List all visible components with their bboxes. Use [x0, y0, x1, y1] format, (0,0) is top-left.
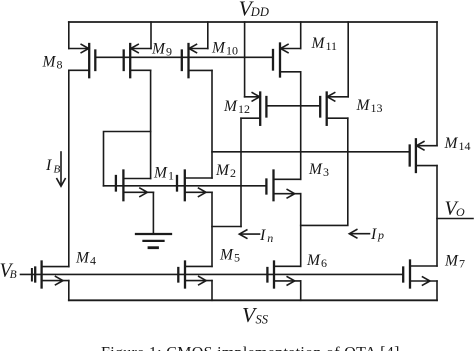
wire gate bus M1 M2 M3	[104, 185, 267, 187]
svg-text:M: M	[219, 247, 234, 264]
transistor M6	[267, 262, 300, 288]
wire VDD rail to M13 source	[347, 22, 349, 97]
transistor M8	[69, 44, 96, 77]
node VDD rail	[69, 21, 437, 23]
bias current arrow IB	[57, 152, 65, 186]
svg-text:11: 11	[326, 39, 338, 53]
svg-text:B: B	[10, 269, 17, 281]
label In	[259, 227, 273, 245]
wire VDD rail to M12 source	[244, 22, 246, 97]
wire M11 drain down to M3 drain	[300, 72, 302, 180]
ground	[136, 234, 171, 248]
label M9	[151, 41, 172, 59]
wire M8 drain down left column to M4 drain	[68, 70, 70, 266]
wire M14 drain down to M7 drain	[436, 166, 438, 266]
transistor M5	[178, 262, 212, 301]
svg-text:M: M	[211, 40, 226, 57]
svg-text:M: M	[75, 249, 90, 266]
svg-text:4: 4	[90, 253, 96, 267]
svg-text:M: M	[444, 253, 459, 270]
wire M10 drain down to M2 drain	[211, 70, 213, 178]
svg-text:1: 1	[168, 169, 174, 183]
label M14	[444, 135, 471, 153]
wire gate bus M12 M13	[266, 105, 320, 107]
svg-text:9: 9	[166, 45, 172, 59]
svg-text:M: M	[308, 161, 323, 178]
svg-text:M: M	[356, 97, 371, 114]
label M12	[223, 98, 250, 116]
label VSS	[242, 303, 269, 327]
svg-text:M: M	[42, 54, 57, 71]
wire VO output stub	[437, 218, 473, 220]
transistor M9	[124, 44, 151, 77]
wire VDD rail to M9 source	[150, 22, 152, 49]
wire M3 source down to M6 drain	[300, 194, 302, 267]
svg-text:M: M	[311, 35, 326, 52]
svg-text:M: M	[215, 162, 230, 179]
label M7	[444, 253, 465, 271]
transistor M1	[116, 171, 153, 201]
svg-text:I: I	[45, 157, 52, 174]
transistor M7	[403, 261, 437, 288]
label M2	[215, 162, 236, 180]
label VB	[0, 261, 17, 282]
svg-text:M: M	[153, 165, 168, 182]
transistor M10	[182, 44, 212, 77]
wire M1 source down to ground	[152, 192, 154, 234]
wire In node jog	[212, 226, 241, 228]
wire M13 drain down to Ip node jog	[301, 118, 348, 225]
label M10	[211, 40, 238, 58]
label Ip	[370, 226, 384, 243]
svg-text:M: M	[444, 135, 459, 152]
transistor M12	[241, 93, 266, 125]
svg-text:I: I	[370, 226, 377, 243]
transistor M14	[410, 139, 437, 172]
wire VDD rail to M8 source	[68, 22, 70, 49]
transistor M11	[273, 44, 301, 77]
label M13	[356, 97, 383, 115]
input current arrow Ip	[349, 230, 369, 238]
svg-text:M: M	[151, 41, 166, 58]
wire VB gate bus M4 M5 M6 M7	[21, 273, 404, 275]
svg-text:O: O	[456, 205, 465, 219]
wire M4 source to VSS rail	[68, 281, 70, 301]
wire M7 source to VSS rail	[436, 281, 438, 300]
label M5	[219, 247, 240, 265]
svg-text:13: 13	[371, 101, 383, 115]
wire M12 drain down to In node	[240, 118, 242, 226]
svg-text:14: 14	[459, 139, 471, 153]
transistor M4	[32, 262, 69, 288]
transistor M3	[266, 171, 300, 201]
label M1	[153, 165, 174, 183]
wire M1 gate diode loop	[104, 132, 151, 186]
node VSS rail	[69, 299, 437, 301]
wire VDD rail to M10 source	[207, 22, 209, 49]
svg-text:6: 6	[321, 256, 327, 270]
wire gate bus M8 M9 M10 M11	[95, 56, 273, 58]
svg-text:p: p	[377, 228, 384, 242]
svg-text:I: I	[259, 227, 266, 244]
transistor M2	[177, 171, 212, 201]
label VO	[445, 198, 466, 220]
label M3	[308, 161, 329, 179]
svg-text:3: 3	[323, 165, 329, 179]
svg-text:n: n	[267, 231, 273, 245]
wire M6 source to VSS rail	[300, 281, 302, 300]
label IB	[45, 157, 61, 176]
svg-text:Figure 1: CMOS implementation: Figure 1: CMOS implementation of OTA [4]…	[101, 345, 404, 351]
svg-text:12: 12	[238, 102, 250, 116]
svg-text:2: 2	[230, 166, 236, 180]
svg-text:8: 8	[57, 58, 63, 72]
svg-text:M: M	[306, 252, 321, 269]
label M8	[42, 54, 63, 72]
label M4	[75, 249, 96, 267]
label VDD	[239, 0, 269, 20]
svg-text:5: 5	[234, 251, 240, 265]
label M6	[306, 252, 327, 270]
wire VDD rail to M11 source	[300, 22, 302, 49]
svg-text:7: 7	[459, 257, 465, 271]
svg-text:DD: DD	[250, 5, 269, 19]
wire VDD rail right end to M14 source	[436, 22, 438, 146]
input current arrow In	[239, 230, 259, 238]
svg-text:SS: SS	[256, 312, 269, 326]
svg-text:10: 10	[226, 44, 238, 58]
wire M14 gate line to node between M10 and M2	[212, 151, 410, 153]
transistor M13	[320, 93, 348, 125]
wire M9 drain down to M1 drain	[150, 70, 152, 178]
wire M2 source down to M5 drain	[211, 192, 213, 266]
label M11	[311, 35, 338, 53]
svg-text:B: B	[54, 163, 61, 175]
svg-text:M: M	[223, 98, 238, 115]
